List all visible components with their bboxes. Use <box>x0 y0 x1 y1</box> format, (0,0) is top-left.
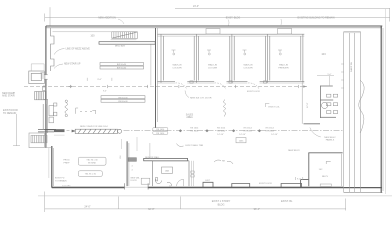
svg-text:BW 60x30: BW 60x30 <box>118 97 128 99</box>
light vertical from conveyor <box>149 143 151 158</box>
svg-text:RS 1614: RS 1614 <box>217 130 226 132</box>
sales area label <box>186 113 194 119</box>
cross marks on centerline <box>44 85 299 88</box>
landing bar below stair <box>99 42 155 48</box>
top wall <box>46 25 382 27</box>
svg-text:JAN: JAN <box>165 169 169 172</box>
interior fixture box <box>162 167 173 173</box>
svg-text:MEZZ ABV: MEZZ ABV <box>115 44 126 47</box>
panel pairs <box>322 94 338 113</box>
svg-text:96'-4": 96'-4" <box>254 208 260 211</box>
svg-text:101 OFC: 101 OFC <box>62 185 71 187</box>
svg-text:WALK-IN: WALK-IN <box>172 64 181 67</box>
bracket + box below <box>236 138 246 143</box>
exterior steps (hatched) <box>35 92 48 105</box>
dash-dot line <box>124 130 344 132</box>
conveyor <box>75 129 121 133</box>
svg-text:EXIST. BL: EXIST. BL <box>281 200 293 203</box>
relief boxes on top wall <box>206 29 292 34</box>
svg-text:103: 103 <box>321 52 326 56</box>
svg-text:AREA: AREA <box>186 116 193 119</box>
svg-text:14'-10": 14'-10" <box>239 134 246 136</box>
dim texts below line <box>217 134 278 136</box>
svg-text:RECV: RECV <box>322 176 329 178</box>
door jamb boxes mid-left <box>49 103 57 123</box>
vestibule outside left wall <box>29 64 48 84</box>
table label box 1 <box>78 157 106 165</box>
svg-text:RR: RR <box>222 161 226 163</box>
svg-text:BLDG: BLDG <box>218 203 225 206</box>
dim texts top <box>98 5 335 19</box>
svg-text:TO REMAIN: TO REMAIN <box>3 112 17 115</box>
right extension line <box>385 9 387 194</box>
vertical dim w ticks <box>296 177 303 180</box>
svg-text:RS 1614: RS 1614 <box>244 128 253 130</box>
svg-text:RS 1614: RS 1614 <box>266 130 275 132</box>
diamond markers <box>179 129 261 132</box>
door gap in bottom wall w/ jambs <box>125 186 148 189</box>
door swing squiggle <box>167 182 172 186</box>
window marks outside left wall <box>41 72 46 78</box>
svg-text:RAMP DN: RAMP DN <box>350 62 353 72</box>
svg-text:NEW ELEC: NEW ELEC <box>324 137 336 139</box>
svg-text:RS 1614: RS 1614 <box>190 130 199 132</box>
left wall lower <box>51 146 53 188</box>
svg-text:RS 1614: RS 1614 <box>244 130 253 132</box>
svg-text:EXIST. BLDG: EXIST. BLDG <box>226 16 241 19</box>
arrowhead at centerline end <box>303 85 307 87</box>
small box on wall left of restroom <box>141 178 150 184</box>
svg-text:62'-8": 62'-8" <box>148 208 154 211</box>
cooler bottom wall with door gaps <box>158 82 305 83</box>
svg-text:WALK-IN: WALK-IN <box>208 64 217 67</box>
svg-text:RS 1614: RS 1614 <box>156 129 165 131</box>
svg-text:RS 1614: RS 1614 <box>190 128 199 130</box>
bottom dim texts <box>84 200 293 211</box>
svg-text:PANELS: PANELS <box>326 139 335 142</box>
svg-text:BW 60x30: BW 60x30 <box>117 68 127 70</box>
svg-text:NEW RR WALL: NEW RR WALL <box>145 156 160 159</box>
svg-text:24'-0": 24'-0" <box>193 5 199 8</box>
room outline <box>152 161 193 187</box>
left side texts <box>2 92 18 115</box>
svg-text:WALK-IN: WALK-IN <box>243 64 252 67</box>
sidewalk line <box>38 195 392 197</box>
svg-text:EXIST FD: EXIST FD <box>55 178 65 180</box>
leaders from top labels <box>118 19 282 26</box>
inner top wall of coolers <box>158 33 305 35</box>
folding door chain <box>65 100 68 117</box>
svg-text:EXISTING BUILDING TO REMAIN: EXISTING BUILDING TO REMAIN <box>298 16 335 19</box>
svg-text:NEW ADDITION: NEW ADDITION <box>98 16 116 19</box>
door box on wall at centerline <box>43 87 46 91</box>
svg-text:NEW RECV: NEW RECV <box>288 150 300 152</box>
svg-text:TBL 96 x 30: TBL 96 x 30 <box>86 160 98 162</box>
svg-text:BW 60x30: BW 60x30 <box>118 101 128 103</box>
lower texts <box>55 178 71 188</box>
stair <box>111 32 138 40</box>
plumbing squiggle <box>223 100 226 117</box>
wall-mount marks right of room <box>191 171 194 177</box>
witness verticals below dashdot <box>121 137 137 151</box>
svg-text:9'-0": 9'-0" <box>103 91 107 93</box>
ticks on corridor <box>341 64 344 88</box>
table label box 2 <box>78 171 102 177</box>
svg-text:PREP: PREP <box>64 163 70 165</box>
right wall <box>380 26 382 193</box>
svg-text:100: 100 <box>90 35 95 38</box>
small dim with brackets <box>87 78 112 81</box>
svg-text:NEW 8x8 O.H. DOOR: NEW 8x8 O.H. DOOR <box>190 98 212 100</box>
svg-text:NEW CONVEYOR LINE 1614: NEW CONVEYOR LINE 1614 <box>80 126 109 128</box>
door swing arcs dashed <box>176 83 260 90</box>
svg-text:NEW STAIR UP: NEW STAIR UP <box>64 63 81 66</box>
wall band left <box>38 129 54 132</box>
top dim line A <box>175 8 390 14</box>
light shelf line above panels <box>317 76 334 86</box>
vertical cooler walls <box>161 34 163 83</box>
svg-text:12'-6": 12'-6" <box>307 102 309 108</box>
left wall inner face with notches <box>51 28 55 71</box>
lower-left exterior stair <box>29 133 52 178</box>
interior leader + texts <box>326 161 331 164</box>
left wall upper (outer face) <box>45 26 47 136</box>
bench row B <box>101 96 145 103</box>
svg-text:EXIST DOOR: EXIST DOOR <box>259 183 272 185</box>
fan coil symbols <box>172 50 283 55</box>
svg-text:LINE OF MEZZ ABOVE: LINE OF MEZZ ABOVE <box>66 47 91 50</box>
svg-text:DOOR: DOOR <box>131 180 138 182</box>
svg-text:EXIST DOOR: EXIST DOOR <box>247 91 260 93</box>
svg-text:COOLER: COOLER <box>208 67 218 69</box>
bottom wall main <box>52 187 382 189</box>
svg-text:TBL 96 x 30: TBL 96 x 30 <box>85 174 97 176</box>
toilet <box>155 178 161 184</box>
bench row A <box>100 63 144 70</box>
panel wall assembly <box>320 86 336 118</box>
svg-text:EXIT: EXIT <box>206 180 211 182</box>
leader curl + text <box>177 144 184 147</box>
svg-text:TO REMAIN: TO REMAIN <box>55 179 67 182</box>
svg-text:WALK-IN: WALK-IN <box>279 64 288 67</box>
left vertical dim <box>13 114 20 146</box>
light line right of room <box>150 44 152 85</box>
dark bar at wall <box>54 129 65 132</box>
svg-text:FREEZER: FREEZER <box>278 67 289 69</box>
svg-text:24'-0": 24'-0" <box>84 206 90 209</box>
svg-text:AND STAIR: AND STAIR <box>2 94 15 97</box>
svg-text:PROD: PROD <box>63 160 70 162</box>
stub box <box>128 158 136 162</box>
svg-text:EXIST COL: EXIST COL <box>269 106 281 108</box>
wall between room 100 and coolers <box>155 28 157 128</box>
labels above dashdot <box>156 128 274 135</box>
door jamb blocks <box>190 81 267 83</box>
boxed label pair at conveyor end <box>153 128 168 135</box>
svg-text:RS 1614: RS 1614 <box>266 128 275 130</box>
leader curl right <box>214 160 233 164</box>
svg-text:RS 1614: RS 1614 <box>217 128 226 130</box>
leader with text right <box>265 104 269 108</box>
cooler labels <box>172 64 289 70</box>
ramp bottom line right <box>344 191 383 193</box>
svg-text:BW 60x30: BW 60x30 <box>117 64 127 66</box>
svg-text:COOLER: COOLER <box>172 67 182 69</box>
svg-text:EXIST WALL TBR: EXIST WALL TBR <box>186 144 204 147</box>
svg-text:9'-0": 9'-0" <box>297 178 301 180</box>
office texts <box>63 160 70 165</box>
small box on wall in room <box>320 184 331 187</box>
dashed future equipment bracket <box>76 108 96 114</box>
svg-text:14'-10": 14'-10" <box>271 134 278 136</box>
svg-text:W/ SINK: W/ SINK <box>88 163 97 165</box>
wall segment left of panels <box>304 123 321 125</box>
wall x127 <box>126 141 128 187</box>
svg-text:SALES: SALES <box>186 113 194 116</box>
S-squiggle leader <box>359 80 364 133</box>
north wall dark bar <box>144 158 188 160</box>
svg-text:RS 1614: RS 1614 <box>156 133 165 135</box>
bottom dim line <box>45 192 346 213</box>
dashed centerline y85.6 <box>24 86 307 88</box>
svg-text:14'-10": 14'-10" <box>217 134 224 136</box>
svg-text:COOLER: COOLER <box>243 67 253 69</box>
svg-text:9'-0": 9'-0" <box>97 79 102 81</box>
door leaf on wall <box>49 106 54 116</box>
svg-text:5'-0": 5'-0" <box>328 74 332 76</box>
top dim line B <box>45 7 390 26</box>
